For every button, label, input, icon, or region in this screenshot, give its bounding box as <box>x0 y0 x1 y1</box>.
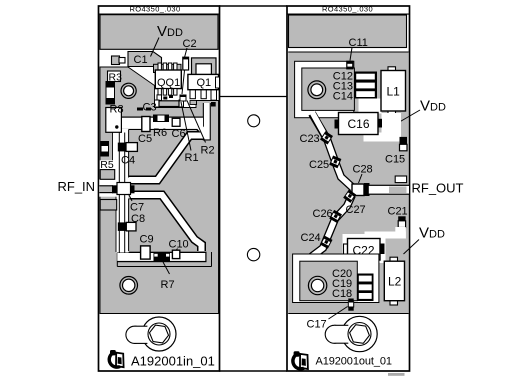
RF_OUT label <box>412 181 464 196</box>
svg-text:C28: C28 <box>353 164 373 176</box>
svg-text:R2: R2 <box>201 145 215 157</box>
VDD pour block (right board top) <box>289 15 407 48</box>
board outline (left) <box>99 6 220 371</box>
wire bottom row C9/R7/C10 <box>117 252 206 263</box>
logo (left board) <box>109 350 123 367</box>
VDD label (right upper) <box>396 98 446 125</box>
svg-text:R6: R6 <box>153 127 167 139</box>
svg-text:C9: C9 <box>140 234 154 246</box>
svg-text:C2: C2 <box>183 38 197 50</box>
capacitor C2 <box>183 57 189 70</box>
SMA connector (right board) <box>325 316 377 351</box>
resistor R8 <box>106 104 124 133</box>
capacitor C21 <box>388 206 408 228</box>
transistor Q1 <box>188 58 220 100</box>
bottom edge line across gap <box>219 370 287 372</box>
via hole (right board upper) <box>308 81 326 99</box>
svg-text:C4: C4 <box>121 155 135 167</box>
transistor QQ1 <box>154 63 182 100</box>
svg-text:C14: C14 <box>333 91 353 103</box>
svg-text:C11: C11 <box>349 37 368 49</box>
mid connection wire <box>220 96 288 98</box>
svg-text:C1: C1 <box>134 54 148 66</box>
component area boundary lines (left board) <box>117 252 211 267</box>
capacitor C17 <box>307 299 354 331</box>
wire lower branch and hairpin <box>130 195 202 251</box>
svg-text:C3: C3 <box>143 102 157 114</box>
capacitor C9 <box>140 234 154 260</box>
resistor R6 <box>153 115 169 139</box>
capacitor C15 <box>385 137 407 166</box>
RF_IN entry trace <box>99 179 117 197</box>
capacitor C5 <box>138 117 152 146</box>
ground pour (right board) <box>288 52 409 314</box>
svg-text:R8: R8 <box>110 104 124 116</box>
svg-text:C26: C26 <box>313 208 333 220</box>
resistor R3 <box>106 71 122 104</box>
svg-text:QQ1: QQ1 <box>157 77 180 89</box>
top edge line across gap <box>219 5 287 7</box>
svg-text:C21: C21 <box>388 206 408 218</box>
svg-text:C18: C18 <box>332 288 352 300</box>
capacitor C1 label <box>134 54 148 66</box>
capacitor C25 <box>309 156 341 171</box>
capacitor C11 <box>347 37 368 69</box>
capacitor C22 <box>343 227 406 274</box>
capacitor C4 <box>118 143 138 167</box>
svg-text:C27: C27 <box>346 204 366 216</box>
svg-text:C6: C6 <box>172 128 186 140</box>
capacitor C2 label <box>182 38 197 94</box>
via hole (gap upper) <box>248 115 260 127</box>
inductor L1 <box>381 67 406 116</box>
capacitor C24 <box>301 232 332 248</box>
svg-text:C25: C25 <box>309 159 329 171</box>
SMA connector (left board) <box>126 317 176 351</box>
title bar (left) <box>99 5 220 14</box>
capacitors C12 C13 C14 stack <box>333 71 377 103</box>
svg-text:R1: R1 <box>185 152 199 164</box>
svg-text:C10: C10 <box>169 239 189 251</box>
capacitor C8 <box>118 213 145 231</box>
wire upper branch to transistor <box>129 136 205 181</box>
white patch between stack, C16 and L1 <box>359 99 382 114</box>
resistor R1 label <box>181 102 199 164</box>
pour bottom line (left board) <box>100 313 219 315</box>
white fills of channels <box>117 103 209 261</box>
svg-text:L1: L1 <box>387 85 401 99</box>
capacitor C16 <box>335 113 402 142</box>
white region around C18-C20 <box>293 254 379 303</box>
small parts below Q1 <box>137 95 216 111</box>
svg-text:C7: C7 <box>130 202 144 214</box>
capacitor C27 <box>344 190 366 216</box>
via hole (left board lower) <box>120 277 138 295</box>
capacitor C23 <box>300 132 333 145</box>
capacitors C18 C19 C20 stack <box>332 268 374 301</box>
via hole (gap lower) <box>247 248 259 260</box>
svg-text:A192001out_01: A192001out_01 <box>316 356 392 368</box>
wire channel C5/R6/C6 row <box>117 117 207 136</box>
capacitor C26 <box>313 208 342 222</box>
svg-text:C24: C24 <box>301 232 321 244</box>
capacitor C3 <box>155 100 184 107</box>
inductor L2 <box>384 257 404 305</box>
svg-text:Q1: Q1 <box>197 77 212 89</box>
resistor R5 <box>100 142 117 211</box>
svg-text:C17: C17 <box>307 319 327 331</box>
capacitor C6 <box>172 118 186 140</box>
tiny footer text <box>388 373 405 376</box>
svg-text:C15: C15 <box>385 154 405 166</box>
svg-text:C23: C23 <box>300 133 320 145</box>
capacitor C3 label <box>143 102 157 114</box>
title bar (right) <box>287 5 410 14</box>
label A192001out_01 <box>316 356 392 368</box>
logo (right board) <box>293 351 308 369</box>
resistor R2 label <box>187 101 215 157</box>
capacitor C10 <box>169 239 189 259</box>
via hole (right board lower) <box>308 276 326 294</box>
via hole (left board upper) <box>121 83 136 98</box>
node C7 label <box>129 194 145 214</box>
svg-text:A192001in_01: A192001in_01 <box>131 354 215 369</box>
capacitor C28 junction pad <box>352 164 373 197</box>
svg-text:RF_OUT: RF_OUT <box>412 181 464 196</box>
white region around C12-C14 <box>295 61 355 117</box>
VDD label (right lower) <box>404 225 445 255</box>
capacitor C1 trace <box>112 52 162 67</box>
ground pour (left board) <box>100 67 219 314</box>
RF_OUT trace <box>369 176 409 195</box>
wire diagonal lower (right board) <box>301 195 353 262</box>
svg-text:C16: C16 <box>348 117 370 131</box>
svg-text:RO4350_.030: RO4350_.030 <box>129 5 180 14</box>
svg-text:R3: R3 <box>109 72 123 84</box>
svg-text:RO4350_.030: RO4350_.030 <box>322 5 373 14</box>
svg-text:C5: C5 <box>138 133 152 145</box>
svg-text:RF_IN: RF_IN <box>58 179 96 194</box>
VDD pour block (left board top) <box>100 15 218 50</box>
pour bottom line (right board) <box>288 313 409 315</box>
wire diagonal upper (right board) <box>312 112 353 188</box>
board outline (right) <box>287 6 410 371</box>
trace corridor (vertical main trace) <box>113 129 129 253</box>
label A192001in_01 <box>131 354 215 369</box>
resistor R7 <box>154 253 175 291</box>
RF_IN label <box>58 179 96 194</box>
svg-text:L2: L2 <box>388 275 402 289</box>
VDD label (left) <box>151 23 183 57</box>
wire channel vertical to Q1 <box>203 103 211 141</box>
svg-text:R7: R7 <box>161 279 175 291</box>
node C7 junction pad <box>112 183 135 195</box>
